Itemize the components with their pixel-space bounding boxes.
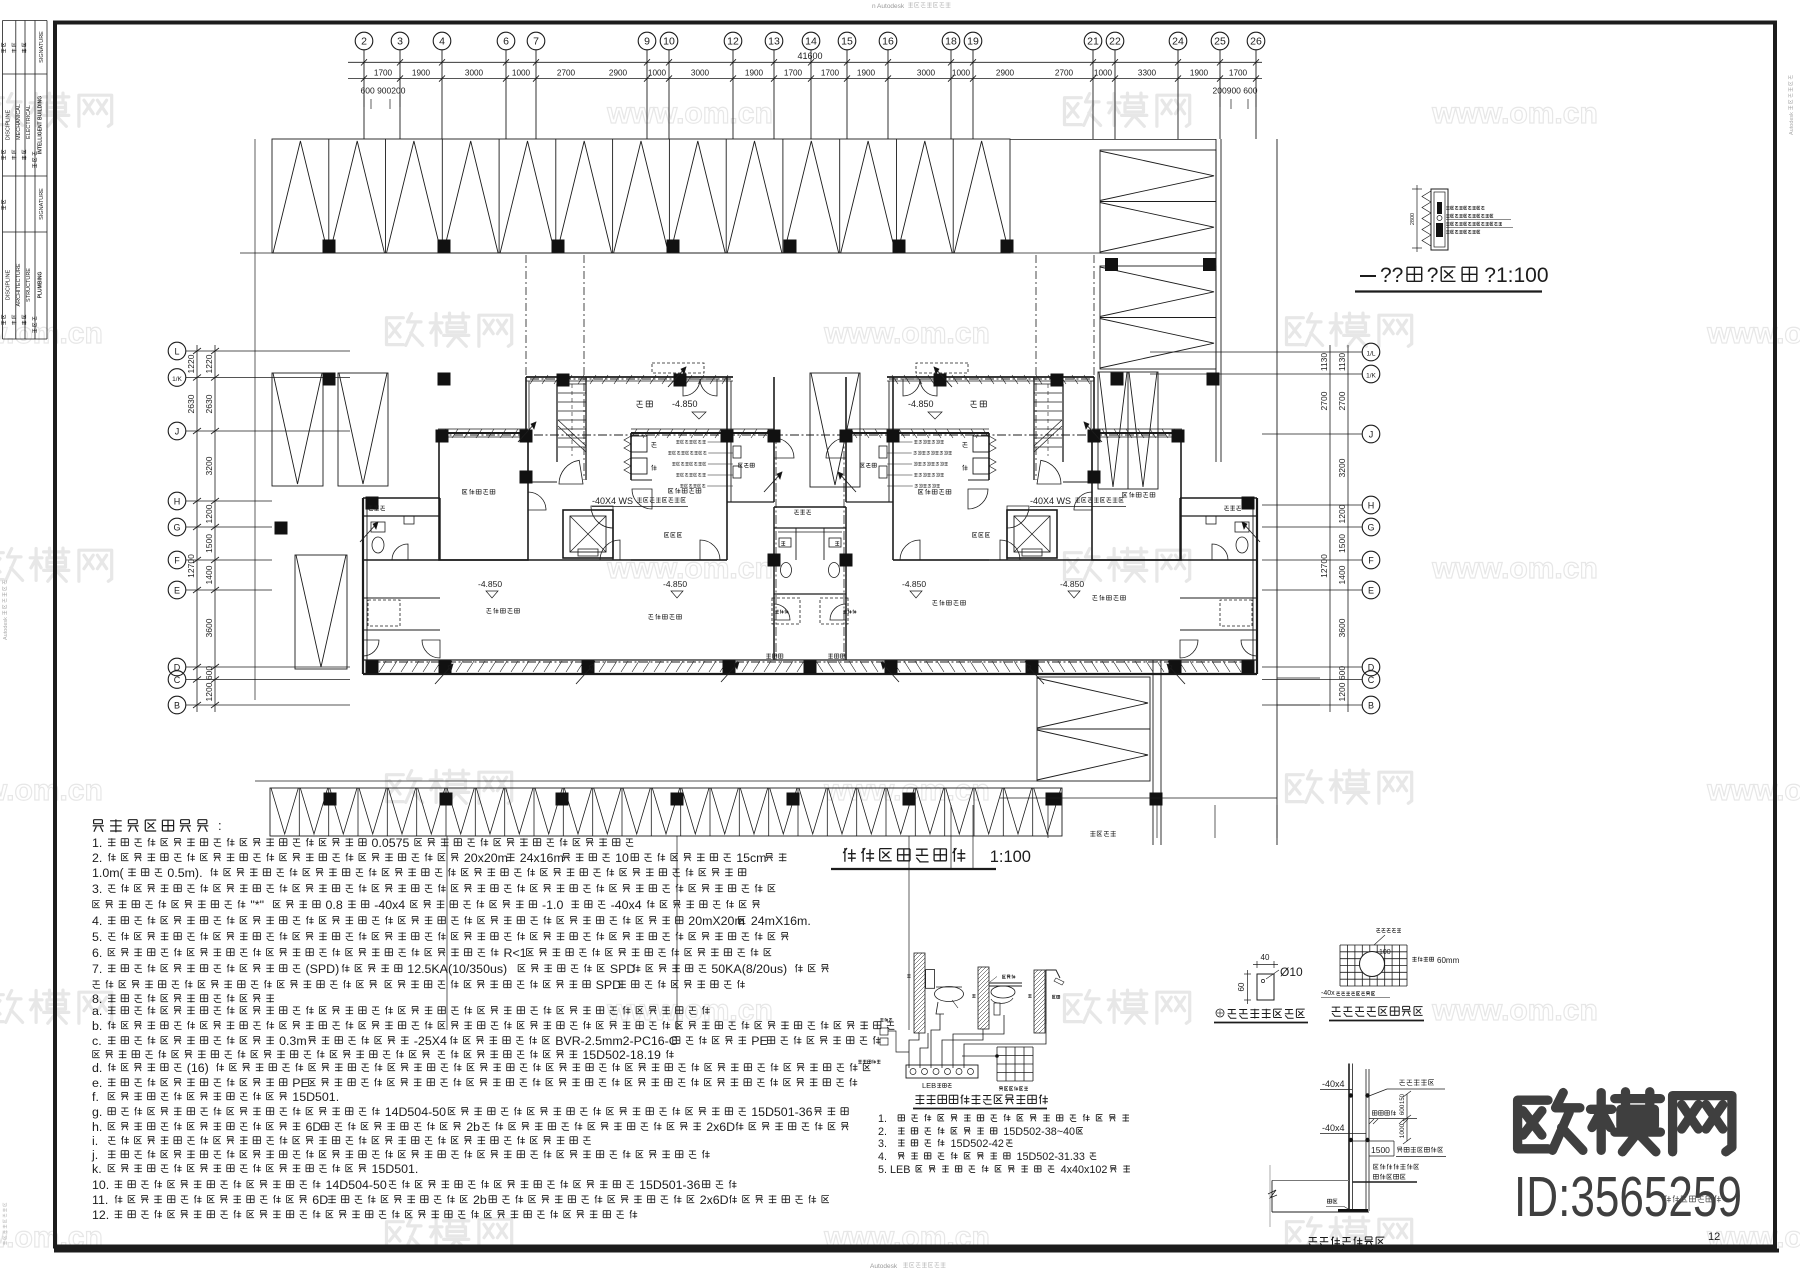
svg-text:20x20m: 20x20m	[464, 851, 508, 865]
svg-text:1220: 1220	[186, 354, 196, 373]
svg-text:1:100: 1:100	[990, 848, 1031, 866]
svg-text::: :	[218, 818, 222, 833]
svg-text:www.om.cn: www.om.cn	[1706, 774, 1800, 807]
boundary line left of plan	[254, 139, 256, 700]
svg-text:-25X4: -25X4	[414, 1034, 447, 1048]
svg-text:g.: g.	[92, 1105, 102, 1119]
svg-text:26: 26	[1250, 36, 1262, 48]
svg-text:www.om.cn: www.om.cn	[1431, 552, 1598, 585]
site logo 欧模网 (dark)	[1518, 1093, 1583, 1151]
svg-text:600: 600	[204, 666, 214, 680]
svg-text:5.: 5.	[92, 930, 102, 944]
svg-text:2630: 2630	[186, 394, 196, 413]
svg-text:1130: 1130	[1319, 353, 1329, 372]
svg-text:12.: 12.	[92, 1208, 109, 1222]
svg-text:1500: 1500	[204, 534, 214, 553]
svg-text:PLUMBING: PLUMBING	[38, 272, 44, 299]
svg-text:2: 2	[361, 36, 367, 48]
svg-text:15D501-36: 15D501-36	[639, 1178, 700, 1192]
sink fixture	[989, 982, 1022, 984]
svg-text:2900: 2900	[609, 69, 628, 78]
row grid bubbles (left)	[168, 342, 186, 360]
svg-text:-4.850: -4.850	[672, 399, 698, 409]
svg-text:1700: 1700	[1229, 69, 1248, 78]
svg-text:1000: 1000	[952, 69, 971, 78]
svg-text:-4.850: -4.850	[908, 399, 934, 409]
svg-text:1900: 1900	[745, 69, 764, 78]
svg-text:1400: 1400	[1337, 565, 1347, 584]
svg-text:2.: 2.	[878, 1126, 887, 1138]
svg-text:??: ??	[1380, 264, 1403, 287]
isolated column square at grid G	[275, 522, 288, 535]
svg-text:J: J	[1369, 430, 1374, 440]
svg-text:L: L	[174, 347, 179, 357]
svg-text:1900: 1900	[857, 69, 876, 78]
svg-text:3200: 3200	[1337, 458, 1347, 477]
svg-text:4x40x102: 4x40x102	[1061, 1164, 1108, 1176]
pipe entry grounding detail	[1339, 945, 1341, 986]
detail title 一??表?接地?1:100	[1360, 275, 1376, 277]
svg-text:-4.850: -4.850	[902, 579, 926, 589]
svg-text:4.: 4.	[878, 1151, 887, 1163]
svg-text:15cm: 15cm	[736, 851, 766, 865]
svg-text:12700: 12700	[1319, 554, 1329, 578]
svg-text:2b: 2b	[473, 1193, 487, 1207]
svg-text:G: G	[173, 523, 180, 533]
svg-text:1200: 1200	[1337, 504, 1347, 523]
svg-text:15D501.: 15D501.	[372, 1162, 419, 1176]
svg-text:6D: 6D	[312, 1193, 328, 1207]
svg-text:-4.850: -4.850	[663, 579, 687, 589]
svg-text:1200: 1200	[1337, 682, 1347, 701]
svg-text:1/L: 1/L	[1366, 351, 1375, 358]
svg-text:www.om.cn: www.om.cn	[823, 317, 990, 350]
svg-text:"*": "*"	[250, 898, 264, 912]
svg-text:3600: 3600	[1337, 618, 1347, 637]
row grid bubbles (right)	[1362, 343, 1380, 361]
svg-text:SIGNATURE: SIGNATURE	[39, 31, 45, 63]
svg-text:600: 600	[1337, 666, 1347, 680]
svg-text:SIGNATURE: SIGNATURE	[39, 188, 45, 220]
top band column squares	[323, 240, 336, 253]
svg-text:12: 12	[1708, 1231, 1720, 1243]
svg-text:1000: 1000	[1094, 69, 1113, 78]
svg-text:STRUCTURE: STRUCTURE	[26, 268, 32, 302]
svg-text:3: 3	[397, 36, 403, 48]
svg-text:-40X4 WS: -40X4 WS	[592, 496, 633, 506]
svg-text:18: 18	[945, 36, 957, 48]
svg-text:i.: i.	[92, 1134, 98, 1148]
building left-half linework	[360, 255, 817, 684]
svg-text:E: E	[174, 586, 180, 596]
svg-text:10: 10	[663, 36, 675, 48]
svg-text:2b: 2b	[466, 1120, 480, 1134]
svg-text:3000: 3000	[917, 69, 936, 78]
svg-text:1200: 1200	[204, 504, 214, 523]
svg-text:1200: 1200	[204, 682, 214, 701]
bottom parking hatch band	[255, 780, 1062, 782]
svg-text:1.0m(: 1.0m(	[92, 866, 125, 880]
svg-text:a.: a.	[92, 1004, 102, 1018]
svg-text:J: J	[175, 427, 180, 437]
meter grounding detail (top right)	[1431, 189, 1448, 250]
svg-text:15: 15	[841, 36, 853, 48]
svg-text:R<1: R<1	[504, 946, 527, 960]
svg-text:1220: 1220	[204, 354, 214, 373]
svg-text:e.: e.	[92, 1076, 102, 1090]
svg-text:41600: 41600	[797, 51, 822, 61]
svg-text:SPD: SPD	[596, 978, 622, 992]
equipotential wires	[909, 1033, 919, 1068]
svg-text:15D501-36: 15D501-36	[751, 1105, 812, 1119]
svg-text:H: H	[1368, 501, 1375, 511]
svg-text:www.om.cn: www.om.cn	[1706, 317, 1800, 350]
watermark tiles 欧模网 / www.om.cn	[0, 94, 23, 126]
svg-text:11.: 11.	[92, 1193, 108, 1207]
column squares at porch band level	[323, 373, 336, 386]
svg-text:15D502-31.33: 15D502-31.33	[1017, 1151, 1085, 1163]
svg-text:PE: PE	[751, 1034, 768, 1048]
svg-text:2700: 2700	[557, 69, 576, 78]
svg-text:100: 100	[1379, 949, 1391, 956]
svg-text:10.: 10.	[92, 1178, 109, 1192]
svg-text:PE: PE	[292, 1076, 309, 1090]
svg-text:Autodesk: Autodesk	[1789, 112, 1795, 135]
svg-text:24x16m: 24x16m	[520, 851, 564, 865]
svg-text:15D502-42: 15D502-42	[951, 1138, 1004, 1150]
svg-text:f.: f.	[92, 1090, 99, 1104]
svg-text:6D: 6D	[306, 1120, 322, 1134]
toilet fixture	[926, 970, 935, 989]
svg-text:2.: 2.	[92, 851, 102, 865]
svg-text:(SPD): (SPD)	[306, 962, 340, 976]
svg-text:2x6D: 2x6D	[700, 1193, 729, 1207]
svg-text:150: 150	[1400, 1093, 1406, 1104]
svg-text:3.: 3.	[92, 882, 102, 896]
svg-text:?1:100: ?1:100	[1484, 264, 1548, 287]
svg-text:4: 4	[439, 36, 445, 48]
column grid bubbles (top)	[355, 32, 373, 50]
resistance test point detail	[1257, 974, 1274, 1000]
svg-text:B: B	[174, 701, 180, 711]
svg-text:24mX16m.: 24mX16m.	[751, 914, 811, 928]
plan title 基础接地平面图 1:100	[843, 848, 965, 862]
grid stubs below band	[950, 805, 952, 868]
svg-text:2700: 2700	[1337, 391, 1347, 410]
svg-text:F: F	[174, 556, 180, 566]
svg-text:0.0575: 0.0575	[372, 836, 410, 850]
svg-text:6.: 6.	[92, 946, 102, 960]
resistance title	[1216, 1009, 1224, 1017]
svg-text:2700: 2700	[1319, 391, 1329, 410]
svg-text:-40x4: -40x4	[374, 898, 405, 912]
svg-text:SPD: SPD	[610, 962, 636, 976]
svg-text:12: 12	[727, 36, 739, 48]
svg-text:-1.0: -1.0	[542, 898, 563, 912]
svg-text:0.5m).: 0.5m).	[167, 866, 202, 880]
right corridor walls	[1215, 139, 1217, 462]
svg-text:c.: c.	[92, 1034, 102, 1048]
svg-text:6: 6	[503, 36, 509, 48]
foundation slab	[1272, 1180, 1349, 1182]
svg-text:12700: 12700	[186, 554, 196, 578]
svg-text:15D502-38~40: 15D502-38~40	[1003, 1126, 1075, 1138]
svg-text:16: 16	[882, 36, 894, 48]
svg-text:1700: 1700	[374, 69, 393, 78]
svg-text:-40x: -40x	[1321, 990, 1335, 997]
svg-text:3.: 3.	[878, 1138, 887, 1150]
svg-text:-4.850: -4.850	[1060, 579, 1084, 589]
svg-text:25: 25	[1214, 36, 1226, 48]
svg-text:40: 40	[1261, 953, 1270, 962]
top band extension line	[240, 252, 1216, 254]
svg-text:ID:3565259: ID:3565259	[1514, 1165, 1742, 1229]
svg-text:ARCHITECTURE: ARCHITECTURE	[16, 263, 22, 306]
svg-text:1/K: 1/K	[172, 376, 182, 383]
svg-text:2x6D: 2x6D	[706, 1120, 735, 1134]
svg-text:F: F	[1368, 556, 1374, 566]
svg-text:9: 9	[644, 36, 650, 48]
side V hatch blocks	[272, 373, 323, 486]
svg-text:E: E	[1368, 586, 1374, 596]
svg-text:1500: 1500	[1371, 1145, 1390, 1155]
svg-text:1500: 1500	[1337, 534, 1347, 553]
bottom band squares	[324, 793, 337, 806]
svg-text:(16): (16)	[187, 1061, 209, 1075]
svg-text:21: 21	[1087, 36, 1099, 48]
svg-text:15D501.: 15D501.	[292, 1090, 339, 1104]
svg-text:1130: 1130	[1337, 353, 1347, 372]
svg-text:b.: b.	[92, 1019, 102, 1033]
svg-text:k.: k.	[92, 1162, 102, 1176]
svg-text:2700: 2700	[1055, 69, 1074, 78]
svg-text:1900: 1900	[412, 69, 431, 78]
svg-text:0.8: 0.8	[326, 898, 343, 912]
LEB terminal bar	[906, 1065, 978, 1078]
grid extension lines lower	[1000, 797, 1277, 799]
top dimension lines	[348, 61, 1262, 63]
svg-text:4.: 4.	[92, 914, 102, 928]
svg-text:1.: 1.	[92, 836, 102, 850]
svg-text:2800: 2800	[1410, 213, 1416, 225]
right parking bowtie block upper	[1100, 150, 1216, 253]
plan text labels	[636, 401, 652, 407]
svg-text:15D502-18.19: 15D502-18.19	[582, 1048, 661, 1062]
svg-text:INTELLIGENT BUILDING: INTELLIGENT BUILDING	[38, 96, 44, 154]
svg-text:600 900200: 600 900200	[361, 86, 406, 96]
svg-text:Ø10: Ø10	[1280, 965, 1303, 979]
svg-text:1900: 1900	[1190, 69, 1209, 78]
residence grounding section detail	[1348, 1064, 1350, 1212]
svg-text:B: B	[1368, 701, 1374, 711]
svg-text:C: C	[1368, 675, 1375, 685]
svg-text:n Autodesk: n Autodesk	[872, 3, 905, 10]
svg-text:3300: 3300	[1138, 69, 1157, 78]
title block strip	[2, 21, 4, 340]
svg-text:-40x4: -40x4	[611, 898, 642, 912]
svg-text:1.: 1.	[878, 1113, 887, 1125]
svg-text:3600: 3600	[204, 618, 214, 637]
svg-text:Autodesk: Autodesk	[870, 1263, 898, 1270]
svg-text:12.5KA(10/350us): 12.5KA(10/350us)	[407, 962, 507, 976]
svg-text:13: 13	[768, 36, 780, 48]
building right-half (mirror)	[804, 255, 1261, 684]
svg-text:22: 22	[1109, 36, 1121, 48]
svg-text:d.: d.	[92, 1061, 102, 1075]
svg-text:j.: j.	[91, 1148, 98, 1162]
svg-text:200900 600: 200900 600	[1213, 86, 1258, 96]
svg-text:DISCIPLINE: DISCIPLINE	[6, 109, 12, 140]
svg-text:-40X4 WS: -40X4 WS	[1030, 496, 1071, 506]
residence detail title	[1309, 1237, 1385, 1247]
svg-text:2900: 2900	[996, 69, 1015, 78]
svg-text:14: 14	[805, 36, 817, 48]
bottom-right bowtie block	[1037, 677, 1150, 781]
svg-text:20mX20m: 20mX20m	[688, 914, 744, 928]
svg-text:BVR-2.5mm2-PC16-C: BVR-2.5mm2-PC16-C	[555, 1034, 678, 1048]
pipe entry title	[1332, 1006, 1423, 1016]
svg-text:www.om.cn: www.om.cn	[1431, 994, 1598, 1027]
svg-text:www.om.cn: www.om.cn	[0, 774, 103, 807]
shower fixture	[1045, 973, 1047, 1024]
svg-text:3000: 3000	[465, 69, 484, 78]
rebar grid symbol	[996, 1047, 998, 1081]
svg-text:10: 10	[615, 851, 629, 865]
svg-text:3000: 3000	[691, 69, 710, 78]
svg-text:5. LEB: 5. LEB	[878, 1164, 910, 1176]
svg-text:LEB: LEB	[922, 1081, 936, 1090]
svg-text:www.om.cn: www.om.cn	[1431, 97, 1598, 130]
svg-text:60: 60	[1237, 982, 1246, 991]
svg-text:1/K: 1/K	[1366, 373, 1376, 380]
drawing name small (under ID)	[1665, 1196, 1721, 1203]
svg-text:?: ?	[1427, 264, 1439, 287]
svg-text:7.: 7.	[92, 962, 102, 976]
svg-text:7: 7	[533, 36, 539, 48]
svg-text:MECHANICAL: MECHANICAL	[16, 104, 22, 140]
toilet detail walls	[914, 953, 925, 1033]
svg-text:50KA(8/20us): 50KA(8/20us)	[711, 962, 787, 976]
svg-text:1700: 1700	[784, 69, 803, 78]
svg-text:14D504-50: 14D504-50	[385, 1105, 446, 1119]
svg-text:H: H	[174, 497, 181, 507]
svg-text:www.om.cn: www.om.cn	[606, 97, 773, 130]
svg-text:Autodesk: Autodesk	[3, 617, 9, 640]
squares between right blocks	[1105, 258, 1118, 271]
svg-text:-4.850: -4.850	[478, 579, 502, 589]
svg-text:19: 19	[967, 36, 979, 48]
svg-text:-40x4: -40x4	[1322, 1079, 1345, 1089]
top parking hatch band	[272, 139, 1010, 253]
svg-text:3200: 3200	[204, 456, 214, 475]
notes title 防雷与接地说明	[93, 819, 209, 832]
svg-text:1000: 1000	[648, 69, 667, 78]
svg-text:1700: 1700	[821, 69, 840, 78]
svg-text:600: 600	[1399, 1104, 1406, 1115]
right parking bowtie block lower	[1100, 266, 1216, 369]
svg-text:1400: 1400	[204, 565, 214, 584]
svg-text:2630: 2630	[204, 394, 214, 413]
svg-text:0.3m: 0.3m	[279, 1034, 307, 1048]
svg-text:h.: h.	[92, 1120, 102, 1134]
toilet detail title	[916, 1095, 1048, 1105]
svg-text:1000: 1000	[512, 69, 531, 78]
svg-text:60mm: 60mm	[1437, 956, 1460, 965]
svg-text:G: G	[1367, 523, 1374, 533]
detail leader labels	[1446, 206, 1484, 210]
label below bowtie	[1090, 831, 1116, 837]
svg-text:1000: 1000	[1399, 1123, 1406, 1138]
svg-text:DISCIPLINE: DISCIPLINE	[6, 269, 12, 300]
svg-text:ELECTRICAL: ELECTRICAL	[26, 105, 32, 139]
svg-text:C: C	[174, 675, 181, 685]
svg-text:www.om.cn: www.om.cn	[606, 552, 773, 585]
svg-text:-40x4: -40x4	[1322, 1123, 1345, 1133]
svg-text:24: 24	[1172, 36, 1184, 48]
svg-text:14D504-50: 14D504-50	[326, 1178, 387, 1192]
